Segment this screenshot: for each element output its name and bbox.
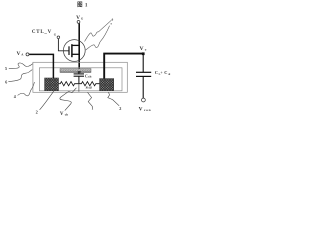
leader 7 xyxy=(86,26,110,50)
wire VA to left electrode xyxy=(29,54,53,78)
leader 2 xyxy=(40,91,54,110)
wire gate vertical main xyxy=(78,23,80,69)
terminal CTL circle xyxy=(57,36,60,39)
wire right electrode to output xyxy=(104,54,143,79)
terminal VA circle xyxy=(26,53,29,56)
substrate outer box xyxy=(33,62,127,92)
svg-text:4: 4 xyxy=(14,94,16,99)
right electrode 3 xyxy=(100,79,114,91)
svg-text:2: 2 xyxy=(36,110,38,115)
svg-text:6: 6 xyxy=(5,80,7,85)
svg-text:CTL_V: CTL_V xyxy=(32,30,52,35)
node Vo junction dot xyxy=(142,52,145,55)
svg-text:1: 1 xyxy=(85,2,88,8)
well inner box xyxy=(39,68,122,91)
transistor M1 source lead xyxy=(72,53,79,55)
leader 2b xyxy=(108,92,119,106)
leader 4 xyxy=(18,82,35,96)
svg-text:图: 图 xyxy=(77,0,83,8)
wire CTL to gate xyxy=(58,39,68,51)
capacitor Cch xyxy=(78,72,80,73)
svg-text:ch: ch xyxy=(65,112,68,116)
svg-text:V: V xyxy=(140,46,144,52)
svg-text:C: C xyxy=(155,70,158,75)
terminal Vcon circle xyxy=(142,98,146,102)
leader 1 xyxy=(88,92,93,106)
svg-text:ol: ol xyxy=(168,73,170,76)
transistor M1 drain lead xyxy=(72,44,79,46)
leader 6b xyxy=(8,70,32,82)
node Vch stub xyxy=(78,84,80,92)
leader Vch xyxy=(60,88,77,111)
leader 5 xyxy=(9,63,33,68)
svg-text:5: 5 xyxy=(5,66,7,71)
resistor Reff left zigzag xyxy=(59,82,79,86)
svg-text:con: con xyxy=(144,108,151,112)
left electrode 2 xyxy=(45,78,59,91)
svg-text:2: 2 xyxy=(119,106,121,111)
transistor M1 gate bar xyxy=(68,46,70,55)
terminal VG circle xyxy=(77,21,80,24)
svg-text:V: V xyxy=(139,107,143,113)
transistor M1 circle xyxy=(63,40,85,62)
transistor M1 channel bar xyxy=(71,44,73,57)
svg-text:V: V xyxy=(17,51,21,57)
svg-text:C: C xyxy=(164,70,167,75)
leader 6 xyxy=(85,20,112,41)
svg-text:ch: ch xyxy=(88,75,91,79)
gate electrode bar xyxy=(60,69,91,73)
svg-text:V: V xyxy=(60,112,64,117)
resistor Reff right zigzag xyxy=(79,82,100,86)
capacitor CL+CO xyxy=(142,54,144,72)
